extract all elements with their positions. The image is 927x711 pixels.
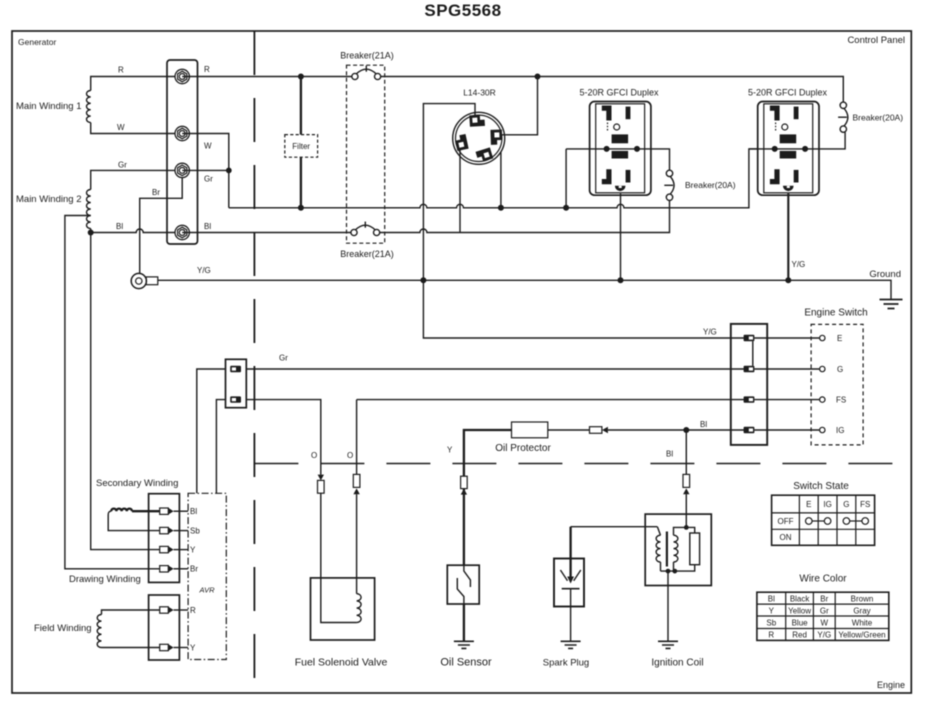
- main winding 1 coil: [87, 91, 91, 123]
- svg-text:Br: Br: [190, 565, 198, 574]
- svg-text:Br: Br: [152, 188, 160, 197]
- wire GFCI1 ground down to bus: [620, 194, 622, 281]
- junction node MW2/Bl: [88, 230, 94, 236]
- svg-text:Sb: Sb: [766, 619, 776, 628]
- svg-text:Gray: Gray: [853, 606, 870, 615]
- ground symbol (spark plug): [561, 641, 581, 648]
- svg-text:Main Winding 2: Main Winding 2: [16, 194, 81, 205]
- wire GFCI1 neutral branch: [565, 149, 567, 208]
- svg-text:White: White: [852, 619, 873, 628]
- pin Y: [160, 546, 188, 553]
- node neutral/GFCI1 branch: [563, 205, 569, 211]
- wire ignition coil to spark plug: [571, 526, 658, 528]
- 5-20R GFCI duplex receptacle 1: [590, 102, 651, 196]
- svg-text:FS: FS: [860, 500, 870, 509]
- wire GFCI2 ground down to bus (bold): [787, 194, 789, 281]
- wire secondary winding return to pin Sb: [108, 511, 160, 530]
- wire spark plug feed (bold): [569, 527, 571, 581]
- wire Bl down to ignition coil: [685, 430, 687, 527]
- wire color table: [757, 592, 889, 640]
- svg-text:ON: ON: [780, 533, 792, 542]
- svg-text:Bl: Bl: [204, 222, 211, 231]
- inline connector on oil sensor wire: [461, 476, 468, 494]
- node ignition secondary/ground: [672, 569, 677, 574]
- fuel solenoid valve box: [311, 578, 375, 640]
- svg-text:Blue: Blue: [792, 619, 809, 628]
- svg-text:RESET: RESET: [781, 153, 795, 158]
- svg-text:Breaker(20A): Breaker(20A): [685, 180, 736, 190]
- wire AVR connector pin1 to AVR box: [197, 369, 226, 493]
- breaker (21A) top on R line: [182, 66, 381, 80]
- svg-text:R: R: [204, 65, 210, 74]
- svg-text:Yellow/Green: Yellow/Green: [838, 631, 885, 640]
- wire R from main winding 1 to terminal 1: [91, 77, 182, 91]
- wire L14 ground slot to ground net: [423, 104, 744, 338]
- switch state table: [772, 495, 875, 545]
- svg-text:Oil Sensor: Oil Sensor: [440, 657, 492, 669]
- svg-text:OFF: OFF: [778, 517, 794, 526]
- inline connector on Bl oil line (horizontal): [590, 427, 608, 434]
- svg-text:IG: IG: [836, 426, 844, 435]
- wire from terminal 3 down-left to ring terminal: [140, 178, 183, 274]
- wire secondary winding to pin Bl (bold): [132, 510, 160, 512]
- wire O branch down to fuel solenoid right: [356, 400, 358, 475]
- pin Y (field): [160, 644, 188, 651]
- svg-text:Wire Color: Wire Color: [799, 574, 847, 585]
- svg-text:AVR: AVR: [198, 586, 215, 595]
- svg-text:Main Winding 1: Main Winding 1: [16, 101, 81, 112]
- engine switch harness connector (4 pin): [731, 324, 767, 445]
- svg-text:IG: IG: [823, 500, 831, 509]
- svg-text:Engine Switch: Engine Switch: [804, 308, 867, 319]
- svg-text:Bl: Bl: [190, 507, 197, 516]
- wire main winding 2 bottom to Bl node: [90, 229, 92, 233]
- node bus/GFCI1 ground: [618, 277, 624, 283]
- node R/L14-30R tap: [535, 74, 541, 80]
- pin Br: [160, 566, 188, 573]
- svg-text:W: W: [821, 619, 829, 628]
- 5-20R GFCI duplex receptacle 2: [758, 102, 819, 196]
- wire oil protector feed (bold) to oil sensor: [464, 430, 512, 565]
- pin R: [160, 607, 188, 614]
- fuel solenoid coil: [321, 578, 361, 623]
- svg-text:Oil Protector: Oil Protector: [495, 443, 551, 454]
- node GFCI2 line: [802, 146, 808, 152]
- svg-text:TEST: TEST: [782, 138, 794, 143]
- ground symbol (oil sensor): [454, 641, 474, 648]
- spark plug box: [554, 559, 584, 607]
- svg-text:W: W: [117, 123, 125, 132]
- breaker (20A) for GFCI2: [838, 102, 848, 132]
- ring terminal (ground lug): [131, 273, 158, 288]
- field winding coil: [97, 615, 101, 648]
- svg-text:O: O: [347, 451, 353, 460]
- AVR box (dash-dot): [188, 493, 226, 659]
- main winding 2 coil: [87, 190, 91, 229]
- wire L14 hot feed from R line: [502, 77, 538, 135]
- svg-text:Drawing Winding: Drawing Winding: [69, 574, 141, 585]
- ignition coil bottom rail: [661, 565, 695, 571]
- breaker (20A) for GFCI1: [664, 170, 674, 200]
- wire Bl from node to terminal 4 (hop over ground wire at x=139.7): [91, 229, 182, 233]
- node GFCI1 line: [634, 146, 640, 152]
- svg-text:Gr: Gr: [118, 161, 127, 170]
- ignition coil resistor: [690, 533, 700, 565]
- svg-text:Ignition Coil: Ignition Coil: [651, 658, 703, 669]
- wire ignition coil to ground: [667, 571, 669, 641]
- svg-text:Secondary Winding: Secondary Winding: [96, 478, 178, 489]
- svg-text:Y: Y: [447, 446, 453, 455]
- node R/filter: [298, 74, 304, 80]
- svg-text:G: G: [837, 365, 843, 374]
- inline connector on fuel solenoid left wire: [318, 475, 325, 578]
- svg-text:TEST: TEST: [614, 138, 626, 143]
- svg-text:Bl: Bl: [116, 222, 123, 231]
- wire L14 W slot down to neutral: [500, 152, 502, 208]
- wire field winding to pin R: [102, 610, 160, 615]
- node ignition primary/ground: [666, 569, 671, 574]
- inline connector on fuel solenoid right wire: [353, 474, 360, 578]
- node bus/GFCI2 ground: [785, 277, 791, 283]
- svg-text:Br: Br: [820, 594, 828, 603]
- terminal 2 (W): [175, 126, 189, 140]
- svg-text:Y/G: Y/G: [197, 266, 211, 275]
- svg-text:Red: Red: [792, 631, 807, 640]
- svg-text:Fuel Solenoid Valve: Fuel Solenoid Valve: [295, 657, 388, 669]
- wire AVR connector pin2 to AVR box: [216, 400, 225, 494]
- wire neutral W/Gr run (hops at x=423.4, 460, 620.5): [182, 134, 758, 208]
- svg-text:Gr: Gr: [820, 606, 829, 615]
- inline connector on ignition Bl wire: [683, 474, 690, 494]
- engine switch terminal IG: [820, 427, 825, 432]
- filter feed wire (bold): [300, 77, 302, 208]
- wire Gr from main winding 2 to terminal 3: [91, 170, 182, 189]
- switch state contacts E-IG: [806, 518, 831, 525]
- wire oil protector to ignition/engine switch (Bl): [548, 429, 744, 431]
- svg-text:Bl: Bl: [768, 594, 775, 603]
- svg-text:Breaker(20A): Breaker(20A): [853, 113, 904, 123]
- svg-text:Gr: Gr: [204, 175, 213, 184]
- node Bl/ignition branch: [683, 427, 689, 433]
- svg-text:Field Winding: Field Winding: [34, 623, 92, 634]
- wire R main run to right breaker: [381, 77, 844, 103]
- wire FS/O run to engine switch connector: [357, 399, 744, 401]
- wire Bl main run (hops at x=139.7 drawn earlier; hop at 423.4): [182, 201, 669, 233]
- svg-text:Black: Black: [790, 594, 811, 603]
- wire GFCI2 line/neutral through-wire: [749, 132, 845, 149]
- terminal 1 (R): [175, 69, 189, 83]
- pin Sb: [160, 527, 188, 534]
- svg-text:Breaker(21A): Breaker(21A): [340, 249, 394, 259]
- switch state contacts G-FS: [843, 518, 868, 525]
- svg-text:Y: Y: [769, 606, 775, 615]
- svg-text:G: G: [843, 500, 849, 509]
- node Bl entry: [684, 525, 689, 530]
- wires connector to engine switch terminals: [754, 338, 819, 430]
- svg-text:O: O: [311, 451, 317, 460]
- oil protector box: [512, 422, 548, 438]
- wire oil sensor to ground (bold): [463, 604, 465, 641]
- svg-text:Spark Plug: Spark Plug: [543, 658, 589, 669]
- ground symbol (ignition coil): [658, 641, 678, 648]
- breaker (21A) dashed enclosure: [347, 65, 385, 243]
- wire L14 X slot down to Bl line: [459, 150, 461, 233]
- engine switch terminal E: [820, 335, 825, 340]
- svg-text:Brown: Brown: [851, 594, 874, 603]
- svg-text:Control Panel: Control Panel: [847, 35, 905, 46]
- oil sensor switch: [457, 565, 470, 604]
- node neutral/L14: [498, 205, 504, 211]
- svg-text:Breaker(21A): Breaker(21A): [340, 51, 394, 61]
- wire Gr to engine switch connector: [246, 368, 744, 370]
- svg-text:Switch State: Switch State: [793, 481, 849, 492]
- engine switch terminal FS: [820, 397, 825, 402]
- svg-text:FS: FS: [836, 396, 846, 405]
- svg-text:Y/G: Y/G: [792, 260, 806, 269]
- svg-text:Y: Y: [190, 546, 196, 555]
- oil sensor box: [447, 565, 479, 604]
- filter box: [285, 135, 318, 158]
- wire Y/G ground bus: [158, 280, 891, 299]
- pin Bl: [160, 508, 188, 515]
- svg-text:Generator: Generator: [18, 37, 56, 47]
- svg-text:Ground: Ground: [869, 269, 901, 280]
- node bus/engine-switch branch: [420, 277, 426, 283]
- svg-text:E: E: [806, 500, 811, 509]
- secondary winding coil (bold): [111, 509, 132, 512]
- wire W from main winding 1 to terminal 2: [91, 123, 182, 134]
- svg-text:R: R: [768, 631, 774, 640]
- wire O from AVR connector pin2 down to fuel solenoid left: [246, 400, 321, 475]
- svg-text:R: R: [118, 66, 124, 75]
- ignition coil box: [645, 514, 711, 585]
- svg-text:R: R: [190, 606, 196, 615]
- node neutral W+Gr: [226, 168, 232, 174]
- svg-text:Engine: Engine: [877, 680, 905, 690]
- terminal 4 (Bl): [175, 225, 189, 239]
- AVR connector block 2: [149, 595, 180, 660]
- L14-30R receptacle: [453, 112, 505, 164]
- svg-text:Sb: Sb: [190, 527, 200, 536]
- svg-text:Yellow: Yellow: [788, 606, 811, 615]
- svg-text:Bl: Bl: [700, 420, 707, 429]
- node filter/neutral: [298, 205, 304, 211]
- svg-text:5-20R GFCI Duplex: 5-20R GFCI Duplex: [579, 88, 659, 98]
- svg-text:Bl: Bl: [666, 450, 673, 459]
- terminal 3 (Gr): [175, 163, 189, 177]
- svg-text:L14-30R: L14-30R: [463, 88, 496, 98]
- svg-text:Filter: Filter: [292, 142, 310, 151]
- ground symbol (frame ground): [880, 300, 903, 309]
- breaker (21A) bottom on Bl line: [351, 222, 380, 236]
- AVR harness connector (2 pin): [226, 359, 247, 407]
- node GFCI1 neutral: [604, 146, 610, 152]
- divider control panel/engine (horizontal dashed): [254, 463, 911, 465]
- engine switch terminal G: [820, 366, 825, 371]
- svg-text:Y/G: Y/G: [817, 631, 831, 640]
- svg-text:RESET: RESET: [613, 153, 627, 158]
- terminal block: [167, 60, 198, 244]
- svg-text:5-20R GFCI Duplex: 5-20R GFCI Duplex: [748, 88, 828, 98]
- divider generator/control panel (vertical dashed): [253, 31, 255, 693]
- node GFCI2 neutral: [772, 146, 778, 152]
- AVR connector block 1: [149, 494, 180, 583]
- spark plug electrode arrow: [560, 570, 580, 589]
- svg-text:W: W: [204, 142, 212, 151]
- wire tap of main winding 2 down to AVR connector pin 4: [65, 216, 160, 569]
- svg-text:Gr: Gr: [279, 354, 288, 363]
- svg-text:Y/G: Y/G: [703, 328, 717, 337]
- wire from Bl node down to AVR connector pin 3: [91, 233, 160, 550]
- svg-text:Y: Y: [190, 644, 196, 653]
- wire spark plug to ground: [570, 589, 572, 642]
- engine switch dashed box: [811, 324, 863, 445]
- svg-text:E: E: [837, 334, 842, 343]
- wire GFCI1 line/neutral through-wire: [566, 149, 669, 170]
- ignition coil transformer: [656, 527, 695, 571]
- svg-text:SPG5568: SPG5568: [424, 1, 501, 20]
- wire field winding to pin Y: [102, 647, 160, 649]
